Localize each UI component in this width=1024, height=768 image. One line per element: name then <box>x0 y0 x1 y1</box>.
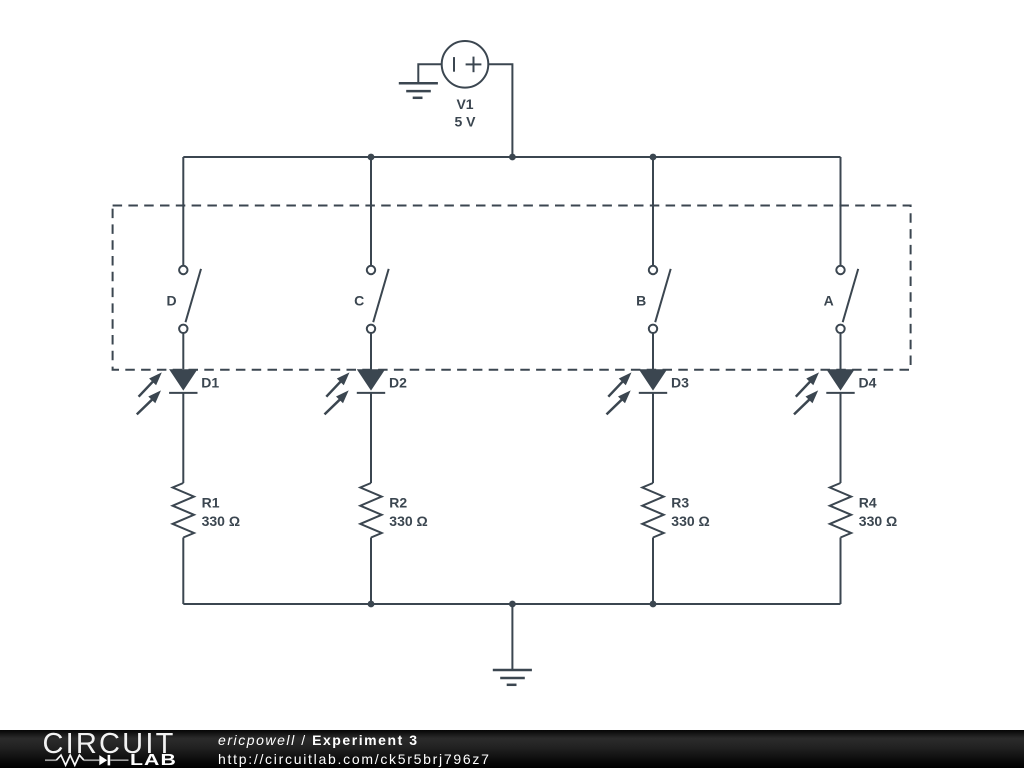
wire top bus <box>183 156 840 158</box>
junction ground bottom bus <box>509 601 516 608</box>
svg-text:330 Ω: 330 Ω <box>859 513 897 529</box>
svg-text:330 Ω: 330 Ω <box>202 513 240 529</box>
footer URL <box>218 751 491 767</box>
value 330 Ω (R2) <box>389 513 427 529</box>
value 330 Ω (R1) <box>202 513 240 529</box>
wire switch C to LED D2 <box>370 333 372 369</box>
LED D3 <box>607 369 668 414</box>
wire resistor R2 to bottom bus <box>370 538 372 605</box>
wire bus to switch A <box>840 157 842 266</box>
wire V1 negative to ground <box>418 64 441 83</box>
value 330 Ω (R3) <box>671 513 709 529</box>
svg-text:R4: R4 <box>859 495 877 511</box>
wire bottom bus to ground <box>511 604 513 670</box>
svg-text:D4: D4 <box>859 375 877 391</box>
switch D <box>179 266 201 333</box>
wire LED D2 to resistor R2 <box>370 393 372 483</box>
wire resistor R3 to bottom bus <box>652 538 654 605</box>
label switch B <box>636 293 646 309</box>
dashed enclosure box <box>113 206 911 370</box>
label resistor R2 <box>389 495 407 511</box>
junction V1 top bus <box>509 154 516 161</box>
svg-text:D1: D1 <box>201 375 219 391</box>
svg-text:330 Ω: 330 Ω <box>389 513 427 529</box>
label resistor R3 <box>671 495 689 511</box>
label LED D2 <box>389 375 407 391</box>
label switch A <box>824 293 834 309</box>
wire bottom bus <box>183 603 840 605</box>
label V1 <box>456 96 473 112</box>
label switch D <box>166 293 176 309</box>
svg-text:D3: D3 <box>671 375 689 391</box>
switch A <box>836 266 858 333</box>
svg-text:B: B <box>636 293 646 309</box>
wire switch A to LED D4 <box>840 333 842 369</box>
svg-text:V1: V1 <box>456 96 473 112</box>
svg-text:R3: R3 <box>671 495 689 511</box>
svg-text:5 V: 5 V <box>454 114 476 130</box>
wire LED D4 to resistor R4 <box>840 393 842 483</box>
svg-text:R1: R1 <box>202 495 220 511</box>
resistor R4 <box>830 483 851 538</box>
resistor R3 <box>642 483 663 538</box>
switch B <box>649 266 671 333</box>
CircuitLab footer bar <box>0 730 1024 768</box>
svg-text:A: A <box>824 293 834 309</box>
wire bus to switch D <box>182 157 184 266</box>
resistor R1 <box>173 483 194 538</box>
svg-text:330 Ω: 330 Ω <box>671 513 709 529</box>
footer author / title text <box>218 732 419 748</box>
LED D4 <box>794 369 855 414</box>
wire resistor R1 to bottom bus <box>182 538 184 605</box>
label resistor R4 <box>859 495 877 511</box>
wire LED D1 to resistor R1 <box>182 393 184 483</box>
ground (bottom) <box>493 670 532 685</box>
wire bus to switch C <box>370 157 372 266</box>
svg-text:D: D <box>166 293 176 309</box>
wire bus to switch B <box>652 157 654 266</box>
wire switch D to LED D1 <box>182 333 184 369</box>
CircuitLab logo <box>0 730 200 768</box>
resistor R2 <box>360 483 381 538</box>
value 5 V <box>454 114 476 130</box>
wire resistor R4 to bottom bus <box>840 538 842 605</box>
svg-text:D2: D2 <box>389 375 407 391</box>
svg-text:C: C <box>354 293 364 309</box>
wire LED D3 to resistor R3 <box>652 393 654 483</box>
wire V1 positive to top bus <box>488 64 512 157</box>
junction bottom bus x=371.0 <box>368 601 375 608</box>
voltage source V1 <box>442 41 489 88</box>
label resistor R1 <box>202 495 220 511</box>
ground (V1) <box>399 83 438 98</box>
svg-text:R2: R2 <box>389 495 407 511</box>
LED D1 <box>137 369 198 414</box>
value 330 Ω (R4) <box>859 513 897 529</box>
label LED D1 <box>201 375 219 391</box>
switch C <box>367 266 389 333</box>
wire switch B to LED D3 <box>652 333 654 369</box>
junction top bus x=653.0 <box>650 154 657 161</box>
svg-text:LAB: LAB <box>130 750 177 768</box>
junction top bus x=371.0 <box>368 154 375 161</box>
label LED D4 <box>859 375 877 391</box>
label switch C <box>354 293 364 309</box>
label LED D3 <box>671 375 689 391</box>
LED D2 <box>325 369 386 414</box>
junction bottom bus x=653.0 <box>650 601 657 608</box>
